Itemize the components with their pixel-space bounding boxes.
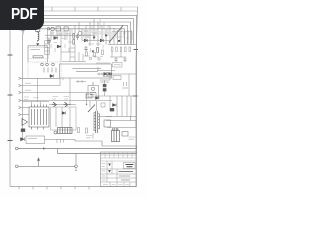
IC U1 (hatched DIP block) (29, 105, 49, 130)
wire transformer primary links (90, 101, 97, 139)
wire vertical x70 drop (69, 78, 71, 105)
wire bus line 1 (top rail) (30, 15, 137, 148)
note text in small box (114, 64, 121, 66)
thermistor circle in sub box (91, 87, 94, 90)
wire vertical drops upper right half (82, 19, 110, 46)
small note box right of label box (113, 63, 123, 68)
title text row (119, 171, 134, 173)
components in sub box (90, 82, 96, 95)
transistor Q4 body (64, 102, 69, 107)
wire double rail y116.5 y120.5 (106, 117, 136, 121)
note text above label box (96, 62, 110, 64)
relay RY2 box on top rail (64, 27, 68, 31)
logo cell box (124, 163, 136, 169)
diode specks upper-right (93, 35, 120, 42)
resistor bank upper right (verticals) (111, 47, 130, 52)
logo text lines (dark) (126, 165, 134, 167)
transistor Q1 (circle) (78, 32, 82, 36)
frame bottom zone ticks (19, 187, 89, 190)
wire y96 right segment (96, 93, 136, 97)
wire rail y127.5 (107, 121, 136, 128)
bridge component squares (mid-right) (103, 84, 107, 87)
wire bus line 2 (30, 19, 134, 45)
frame inner top border with zone ticks (10, 7, 137, 11)
transistor Q3 with label (52, 97, 58, 100)
relay box K1 (bottom left) (26, 136, 45, 144)
resistor pair inside label box bottom-right (104, 73, 107, 77)
frame right border (136, 7, 138, 187)
bottom row tiny text (103, 184, 129, 186)
diode D5 on mid line (100, 39, 103, 42)
wire rail y166.3 with terminals (15, 165, 18, 168)
wire rail y153.5 (58, 149, 137, 154)
wire y107.5 to IC1 (23, 107, 29, 109)
wire y78.3 to box (23, 77, 60, 79)
sub box right of label box (88, 86, 99, 98)
small part right-mid top (101, 103, 105, 107)
tiny net label above y92.5 (25, 89, 31, 91)
wire horizontal y57 right (110, 52, 126, 57)
capacitor C1 (right of L1) (47, 38, 51, 45)
connector CN3 (hatched) with pins (112, 131, 120, 142)
terminal arrow T4 (19, 99, 24, 101)
title block mark cell 1 (dark) (108, 164, 111, 167)
additional vertical drops upper-right field (84, 19, 132, 40)
frame outer top border (10, 6, 138, 8)
resistor R4 (vertical) (97, 48, 99, 53)
PDF badge overlay (0, 0, 44, 30)
transistor Q2 diagonal (large, upper right) (109, 26, 123, 43)
title block left column divider (107, 161, 117, 182)
op-amp U2 (triangle) (22, 119, 28, 126)
transformer T901 windings (94, 113, 99, 132)
terminal arrow T3 (19, 91, 24, 93)
title block revision strip rows (101, 155, 137, 161)
wire vertical x38.5 stub with up arrow (37, 158, 39, 166)
node junction dot on bus 5 (47, 28, 49, 30)
junction ticks on y74 (99, 73, 102, 75)
title block revision strip column dividers (105, 152, 132, 158)
capacitor C2 (76, 34, 79, 40)
tiny net label above y85.5 (25, 82, 31, 84)
extra upper-band texture strokes (46, 31, 129, 57)
inductor L1 (line filter coil) (38, 31, 39, 41)
resistor R1 (horizontal in box) (33, 56, 43, 58)
wire y61.5 pre-box (62, 52, 86, 62)
wire y85.5 (23, 85, 60, 87)
label text in rectifier box (31, 49, 41, 51)
diode D6 inside U3 (62, 112, 65, 115)
connector CN2 (hatched, below U3) (58, 128, 73, 134)
diode D1 arrow (36, 43, 39, 46)
diode D9 (left, above relay box) (21, 138, 25, 141)
capacitor block right of transformer (104, 120, 111, 127)
resistor R3 (vertical) (73, 40, 75, 45)
block U3 outline (51, 107, 77, 130)
diode D4 on mid line (84, 39, 87, 42)
wire verticals right-mid (110, 96, 131, 117)
tiny ref labels above U1 (24, 97, 39, 100)
title block outline (101, 152, 137, 187)
wire staircase center-bottom (45, 140, 137, 149)
transformer T901 core (96, 111, 98, 133)
transistor Q3 body (52, 102, 57, 107)
frame bottom border (10, 186, 136, 188)
wire y74 mid-right (97, 73, 136, 75)
resistor R5 vertical (right of CN2) (78, 128, 80, 133)
transistor Q4 label (64, 97, 70, 100)
wire long left vertical from P1 (22, 35, 24, 139)
wires around bridge (100, 74, 110, 96)
dark component block below op-amp (21, 129, 25, 132)
connector CN1 (hatched vertical box) (45, 41, 50, 55)
wire bus line 4 (30, 25, 128, 44)
capacitor C3 (84, 46, 87, 52)
diode D3 (right-pointing) (57, 45, 61, 48)
frame right zone ticks (133, 50, 138, 97)
terminal circle at end of y166.3 rail (75, 165, 78, 168)
wire horizontal y40.5 (82, 40, 110, 42)
small parts mid-right x122-128 (122, 82, 128, 88)
drop from y153.5 to terminal circle (75, 154, 77, 166)
text row 5 (121, 179, 130, 181)
upper band small parts row y56-60 (86, 50, 104, 60)
wire small links upper-middle lower (61, 45, 75, 63)
wire y70.5 mid-right (97, 67, 115, 71)
wire y100.5 long (23, 100, 112, 102)
diode D10 in dashed box (50, 75, 53, 78)
stub below terminal (75, 168, 77, 171)
title block mark cell 2 (dark) (108, 170, 111, 173)
wire bus line 3 (30, 22, 131, 45)
rectifier block box (dashed) (28, 48, 49, 59)
label box (center caution box) (60, 64, 112, 78)
wire verticals in U3 (56, 107, 70, 127)
wire top rail above U1 (23, 102, 50, 105)
terminal arrow T5 (19, 106, 24, 108)
arrow on main rail (43, 147, 46, 149)
small rect below y74 (113, 76, 121, 80)
diode D8 right-top cluster (113, 104, 117, 107)
wire verticals to rectifier box (28, 46, 48, 62)
wire bus line 5 (30, 29, 125, 45)
label box text line 1 (73, 68, 102, 70)
dashed component group box (upper mid-left) (28, 62, 61, 78)
frame left border (9, 7, 11, 187)
bottom row dividers (110, 182, 130, 187)
tiny note text right bottom (129, 137, 136, 139)
wire vertical drops from bus (upper middle) (48, 22, 80, 46)
pin circles above CN3 (113, 128, 115, 130)
wire from transformer secondary (99, 116, 112, 118)
resistor R6 vertical (86, 128, 88, 133)
junction dots on Q rail (69, 104, 70, 105)
capacitor pair under resistor bank (115, 57, 127, 62)
terminal arrow T2 (19, 84, 24, 86)
fuse F1 (36, 27, 40, 32)
resistor R2 (vertical) (73, 34, 75, 39)
wire verticals upper-right bundle (114, 27, 132, 45)
small parts above transformer (86, 94, 92, 98)
capacitor ladder rungs (70, 45, 75, 63)
connector P1 (AC plug, upper left) (20, 27, 25, 35)
transistor Q5 diagonal (88, 105, 95, 113)
text in relay box (28, 138, 37, 140)
switch S1 (circle symbol on bus 5) (51, 27, 55, 31)
wire y92.5 long (23, 92, 96, 94)
wire vertical x60 link (59, 78, 61, 86)
dark block component (110, 108, 114, 111)
vertical drop x129 mid-right (128, 74, 130, 96)
terminal arrow T6 (19, 113, 24, 115)
wire vertical x37.5 from y78.3 to IC rail (37, 78, 39, 101)
text row 4 (119, 175, 130, 177)
relay RY1 box on top rail (56, 27, 61, 31)
diode D11 on y74 (104, 73, 107, 76)
wire horizontal under L1 (28, 45, 48, 47)
wire main bottom rail y148.5 with left terminal (15, 147, 18, 150)
label box text line 2 (76, 71, 98, 73)
diode D7 (96, 97, 99, 100)
frame left zone ticks (8, 55, 13, 141)
wire horizontal mid upper (45, 34, 95, 36)
upper band texture verticals (left-center) (51, 29, 101, 57)
junction ticks on y82 line (63, 78, 86, 83)
wire rail linking Q3 Q4 (49, 104, 76, 106)
diode D12 on y74 (109, 73, 112, 76)
wire vertical x86.5 drop (86, 93, 88, 105)
tiny text under transformer (86, 136, 92, 138)
small box right of CN3 (122, 132, 128, 137)
junction crosses on staircase (57, 139, 64, 143)
diode D2 (right-pointing) (54, 36, 58, 39)
small text left column rows (102, 164, 106, 181)
wire horizontal y44.5 right (108, 44, 137, 46)
title block row lines (101, 169, 137, 182)
terminal arrow T1 (19, 77, 24, 79)
components inside dashed box: capacitors row (41, 63, 56, 72)
wire y114.5 to IC1 (23, 114, 29, 116)
zener ZD1 (92, 51, 95, 53)
pilot lamp circle left of CN2 (54, 131, 57, 134)
